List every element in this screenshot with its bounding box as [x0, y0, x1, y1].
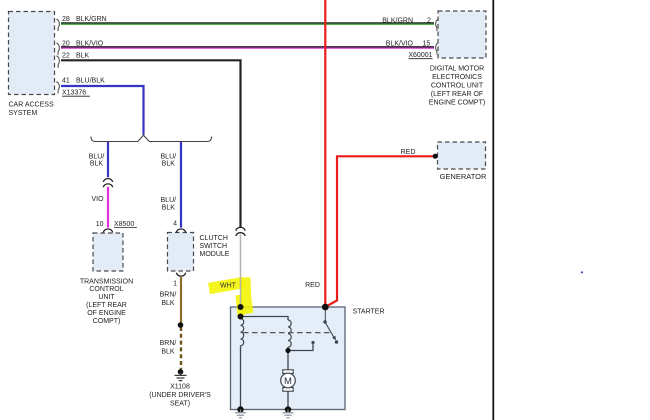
- ground label X1108: [149, 384, 211, 408]
- svg-text:BLU/BLK: BLU/BLK: [76, 78, 105, 85]
- svg-text:BLK: BLK: [161, 300, 175, 307]
- wire BLU/BLK right branch: [180, 142, 182, 228]
- value BLU/BLK right branch lower: [161, 197, 177, 212]
- wire RED generator to starter: [326, 156, 436, 306]
- svg-text:DIGITAL MOTOR: DIGITAL MOTOR: [430, 66, 484, 73]
- connector X13376 label: [62, 90, 90, 97]
- pin 41 arc: [57, 82, 60, 94]
- node WHT at starter: [238, 304, 244, 310]
- svg-text:20: 20: [62, 41, 70, 48]
- svg-text:BLK/VIO: BLK/VIO: [386, 40, 414, 47]
- svg-text:X13376: X13376: [62, 90, 86, 97]
- connector arcs BLK to WHT: [236, 227, 245, 236]
- svg-text:BLK: BLK: [161, 348, 175, 355]
- pin 2 arc: [436, 19, 439, 31]
- svg-text:10: 10: [96, 221, 104, 228]
- connector X60001 label: [408, 52, 432, 59]
- svg-text:CONTROL: CONTROL: [89, 286, 123, 293]
- value BRN/BLK lower: [160, 340, 177, 355]
- svg-text:4: 4: [173, 221, 177, 228]
- switch pivot dot: [323, 320, 326, 323]
- svg-text:X8500: X8500: [114, 221, 134, 228]
- switch blade: [325, 322, 334, 338]
- starter box: [231, 307, 346, 410]
- generator box: [438, 142, 486, 169]
- solenoid coil 1: [241, 319, 244, 346]
- wire BLK pin22 down to connector: [61, 59, 241, 228]
- ground X1108 symbol: [175, 372, 187, 381]
- svg-text:BLK: BLK: [76, 53, 90, 60]
- contact wire L: [288, 343, 313, 351]
- svg-text:BLK/VIO: BLK/VIO: [76, 41, 104, 48]
- wire BRN/BLK dashed to ground: [180, 327, 182, 369]
- svg-text:SYSTEM: SYSTEM: [9, 110, 38, 117]
- svg-text:41: 41: [62, 78, 70, 85]
- svg-text:15: 15: [423, 40, 431, 47]
- wire coil1 to ground: [240, 346, 242, 410]
- pin 15 arc: [436, 43, 439, 55]
- svg-text:BLU/: BLU/: [161, 197, 177, 204]
- node starter ground 1: [237, 406, 243, 412]
- wire BLK/VIO pin20 to pin15: [61, 47, 434, 48]
- contact dot L: [311, 341, 314, 344]
- svg-text:BRN/: BRN/: [160, 340, 177, 347]
- svg-text:TRANSMISSION: TRANSMISSION: [80, 278, 133, 285]
- pin 1 exit arc: [176, 273, 185, 276]
- component label clutch switch module: [200, 235, 230, 258]
- svg-text:BLU/: BLU/: [161, 153, 177, 160]
- stray blue dot: [581, 271, 583, 273]
- svg-text:RED: RED: [305, 282, 320, 289]
- svg-text:GENERATOR: GENERATOR: [440, 172, 487, 181]
- wire BLK/GRN pin28 to pin2: [61, 23, 434, 24]
- wire RED battery feed vertical: [324, 0, 326, 306]
- value BRN/BLK upper: [160, 291, 177, 307]
- trunk line: [492, 0, 494, 420]
- svg-text:2: 2: [427, 18, 431, 25]
- wire BRN/BLK solid from clutch switch module: [180, 277, 182, 323]
- svg-text:SEAT): SEAT): [170, 400, 190, 407]
- value BLU/BLK left branch: [89, 153, 105, 167]
- svg-text:(LEFT REAR OF: (LEFT REAR OF: [431, 91, 483, 98]
- switch arrowhead: [332, 336, 336, 340]
- svg-text:RED: RED: [401, 149, 416, 156]
- wire VIO to transmission control unit: [107, 187, 109, 228]
- svg-text:22: 22: [62, 53, 70, 60]
- svg-text:CONTROL UNIT: CONTROL UNIT: [431, 83, 484, 90]
- svg-text:M: M: [284, 376, 292, 387]
- svg-text:STARTER: STARTER: [353, 309, 385, 316]
- motor M1: [281, 370, 296, 391]
- node BRN/BLK splice: [178, 322, 184, 328]
- svg-text:(LEFT REAR: (LEFT REAR: [86, 302, 127, 309]
- svg-text:BLK/GRN: BLK/GRN: [76, 16, 107, 23]
- wire BLU/BLK pin41 down to splice: [61, 86, 144, 135]
- pin 22 arc: [57, 56, 60, 68]
- node motor tap: [285, 348, 290, 353]
- component label car access system: [9, 101, 54, 117]
- svg-text:COMPT): COMPT): [93, 318, 121, 325]
- wire WHT connector to starter: [240, 235, 242, 308]
- svg-text:BLU/: BLU/: [89, 153, 105, 160]
- svg-text:UNIT: UNIT: [98, 294, 115, 301]
- connector X8500 label: [114, 221, 137, 228]
- svg-text:BLK: BLK: [90, 161, 104, 168]
- ground starter 2: [283, 410, 294, 418]
- digital motor electronics control unit box: [438, 11, 486, 58]
- svg-text:28: 28: [62, 16, 70, 23]
- svg-text:OF ENGINE: OF ENGINE: [87, 310, 126, 317]
- pin 28 arc: [57, 19, 60, 31]
- node RED at starter: [322, 304, 329, 311]
- node ground X1108: [178, 369, 184, 375]
- svg-text:X60001: X60001: [408, 52, 432, 59]
- svg-text:SWITCH: SWITCH: [200, 243, 228, 250]
- svg-text:BLK: BLK: [162, 161, 176, 168]
- solenoid coil 2: [288, 320, 291, 347]
- wire motor to ground: [287, 390, 289, 410]
- yellow highlighter mark: [209, 278, 248, 317]
- clutch switch module box: [168, 233, 194, 272]
- wire BLU/BLK left branch: [107, 142, 109, 177]
- value BLU/BLK right branch upper: [161, 153, 177, 167]
- svg-text:BLK: BLK: [162, 204, 176, 211]
- pin 4 entry arc: [176, 229, 185, 232]
- starter solenoid feed line: [241, 317, 289, 321]
- svg-text:MODULE: MODULE: [200, 251, 230, 258]
- component label digital motor electronics control unit: [429, 66, 485, 107]
- svg-text:ELECTRONICS: ELECTRONICS: [432, 74, 482, 81]
- svg-text:X1108: X1108: [170, 384, 190, 391]
- svg-text:CLUTCH: CLUTCH: [200, 235, 228, 242]
- node starter ground 2: [285, 406, 291, 412]
- svg-text:BLK/GRN: BLK/GRN: [382, 18, 413, 25]
- svg-text:WHT: WHT: [220, 282, 237, 289]
- node generator: [433, 154, 438, 159]
- pin 20 arc: [57, 43, 60, 55]
- car access system box: [9, 12, 55, 95]
- svg-text:1: 1: [173, 281, 177, 288]
- svg-text:ENGINE COMPT): ENGINE COMPT): [429, 100, 485, 107]
- svg-text:(UNDER DRIVER'S: (UNDER DRIVER'S: [149, 392, 211, 399]
- svg-text:VIO: VIO: [91, 196, 104, 203]
- linkage dashed line: [243, 332, 330, 334]
- wire coil2 to motor: [287, 347, 289, 371]
- svg-text:CAR ACCESS: CAR ACCESS: [9, 101, 54, 108]
- transmission control unit box: [93, 233, 123, 271]
- switch contact dot: [335, 340, 338, 343]
- pin 10 entry arc: [103, 229, 112, 232]
- node solenoid tap: [238, 314, 244, 320]
- ground starter 1: [235, 410, 246, 418]
- splice brace: [91, 135, 212, 141]
- svg-text:BRN/: BRN/: [160, 291, 177, 298]
- connector arcs BLU to VIO: [103, 179, 112, 188]
- switch feed: [324, 307, 326, 321]
- component label transmission control unit: [80, 278, 133, 325]
